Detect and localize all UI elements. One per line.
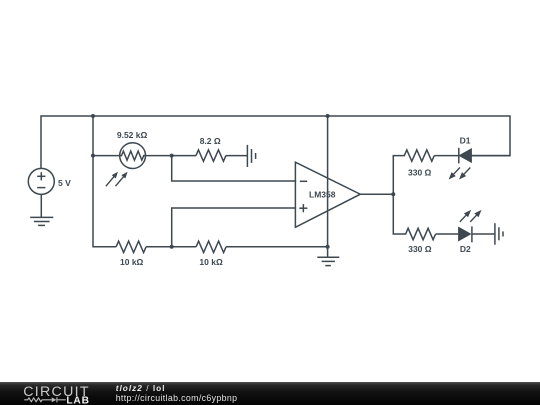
wire node to R2 — [172, 155, 196, 157]
node junction bottom rail x=171.7 — [170, 245, 174, 249]
svg-text:http://circuitlab.com/c6ypbnp: http://circuitlab.com/c6ypbnp — [116, 393, 238, 403]
wire V1 to ground — [40, 194, 42, 217]
op-amp U1 LM358 — [295, 162, 360, 227]
wire output to R5 — [393, 156, 404, 195]
svg-text:D2: D2 — [460, 244, 471, 254]
svg-text:330 Ω: 330 Ω — [408, 244, 432, 254]
wire R4 to x=327.6 — [226, 246, 328, 248]
resistor R6 330 Ohm — [406, 228, 436, 239]
svg-text:D1: D1 — [460, 135, 471, 145]
wire photoresistor to node — [146, 155, 172, 157]
wire D2 to ground — [472, 233, 495, 235]
svg-text:10 kΩ: 10 kΩ — [120, 257, 144, 267]
ground below V1 — [30, 217, 53, 225]
svg-text:10 kΩ: 10 kΩ — [199, 257, 223, 267]
wire vertical x=327.6 top rail to bottom ground — [327, 116, 329, 257]
wire R2 to ground — [226, 155, 247, 157]
photoresistor R1 9.52k — [120, 143, 146, 169]
LED D2 — [459, 227, 471, 240]
resistor R2 8.2 Ohm — [196, 150, 226, 161]
wire R5 to D1 — [434, 155, 459, 157]
node junction top rail x=93 — [91, 114, 95, 118]
wire bottom rail left — [93, 246, 116, 248]
voltage source V1 5V — [28, 168, 54, 194]
svg-text:LM358: LM358 — [309, 190, 336, 200]
wire inverting input from node — [172, 156, 296, 181]
svg-text:5 V: 5 V — [58, 178, 71, 188]
svg-text:9.52 kΩ: 9.52 kΩ — [117, 130, 148, 140]
svg-text:330 Ω: 330 Ω — [408, 167, 432, 177]
wire non-inverting input from divider — [172, 208, 296, 247]
wire D1 to top rail — [471, 155, 510, 157]
wire output to R6 — [393, 194, 405, 234]
node junction output — [391, 192, 395, 196]
node junction x=171.7 photoresistor row — [170, 154, 174, 158]
wire between 10k resistors — [146, 246, 196, 248]
wire vertical x=93 from top rail to bottom rail — [92, 116, 94, 247]
ground rotated right of D2 — [495, 223, 503, 245]
CircuitLab logo waveform — [24, 397, 66, 402]
resistor R5 330 Ohm — [404, 150, 434, 161]
resistor R4 10k — [196, 241, 226, 252]
svg-text:LAB: LAB — [66, 395, 89, 405]
wire op-amp output — [360, 193, 393, 195]
ground rotated right of R2 — [247, 145, 255, 167]
LED D1 — [458, 148, 460, 164]
footer bar — [0, 382, 540, 405]
svg-text:8.2 Ω: 8.2 Ω — [200, 136, 221, 146]
node junction photoresistor row x=93 — [91, 154, 95, 158]
wire R6 to D2 — [436, 233, 459, 235]
resistor R3 10k — [116, 241, 146, 252]
svg-text:tlolz2 / lol: tlolz2 / lol — [116, 383, 166, 393]
node junction bottom rail x=327.6 — [326, 245, 330, 249]
wire x=93 to photoresistor — [93, 155, 120, 157]
wire top rail from V1 to D1 return — [41, 116, 510, 168]
ground below op-amp — [317, 257, 339, 265]
node junction top rail x=327.6 — [326, 114, 330, 118]
